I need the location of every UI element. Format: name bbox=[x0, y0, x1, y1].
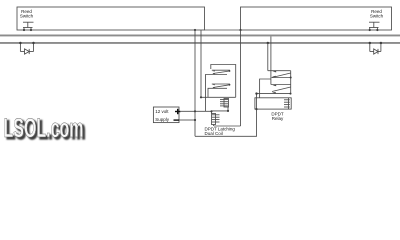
svg-text:LSOL.com: LSOL.com bbox=[4, 113, 84, 143]
wire pole2 bottom long bbox=[257, 93, 291, 95]
wire V2 bbox=[200, 30, 202, 97]
reed switch enclosure left bbox=[17, 7, 205, 30]
reed switch enclosure right bbox=[241, 7, 392, 30]
diode D2 bbox=[374, 49, 378, 54]
label K1 bbox=[271, 112, 284, 121]
wire V1 left bus bbox=[194, 30, 196, 136]
svg-text:Relay: Relay bbox=[272, 116, 284, 121]
wire + supply bbox=[181, 110, 212, 112]
label U1 bbox=[205, 127, 236, 136]
power supply PS1 bbox=[153, 107, 179, 123]
junction dots right bbox=[255, 77, 291, 111]
rail 2 (outside rail) bbox=[0, 42, 400, 44]
svg-text:12 volt: 12 volt bbox=[155, 109, 169, 114]
diode D1 drop wires bbox=[19, 43, 21, 52]
reed switch SW2 symbol bbox=[369, 22, 380, 30]
wire rail2 to pole1 bbox=[267, 43, 269, 71]
wire - supply bbox=[179, 119, 195, 121]
diode D1 bbox=[25, 49, 30, 54]
junction dots center bbox=[194, 70, 231, 121]
reed switch SW1 symbol bbox=[23, 22, 34, 30]
relay U1 inner box bbox=[211, 65, 236, 98]
svg-text:Dual Coil: Dual Coil bbox=[205, 131, 223, 136]
diode D2 drop wires bbox=[369, 43, 371, 52]
wire (reed wire between boxes) bbox=[205, 29, 241, 31]
coil L1 bbox=[220, 99, 229, 108]
wire rail1 to pole2 bbox=[270, 36, 272, 84]
relay K1 coil box bbox=[255, 98, 291, 109]
switch pole 2 of U1 bbox=[208, 84, 230, 97]
switch pole 1 of K1 bbox=[268, 71, 291, 78]
text labels reed switches bbox=[20, 9, 384, 18]
wire coil left feed bbox=[260, 79, 271, 98]
wire coil1 feed bbox=[201, 96, 236, 98]
svg-text:Supply: Supply bbox=[155, 117, 170, 122]
rail 1 (center rail) bbox=[0, 35, 400, 37]
svg-text:Switch: Switch bbox=[370, 13, 384, 18]
junction dots top wire & rails bbox=[19, 29, 382, 44]
wire outer bottom bbox=[195, 94, 257, 137]
switch pole 1 of U1 bbox=[206, 70, 230, 111]
wire common bus right bbox=[290, 71, 292, 94]
switch pole 2 of K1 bbox=[271, 85, 291, 92]
plus terminal bbox=[175, 109, 181, 114]
minus terminal bbox=[174, 119, 180, 120]
svg-text:Switch: Switch bbox=[20, 13, 34, 18]
wire right bus bbox=[240, 30, 242, 126]
wire inner bottom bbox=[214, 125, 241, 127]
coil L2 bbox=[212, 114, 220, 127]
